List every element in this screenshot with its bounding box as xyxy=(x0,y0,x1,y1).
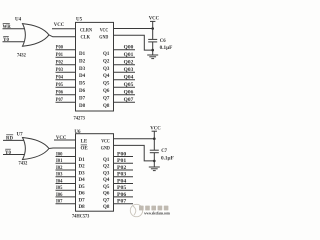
svg-text:I04: I04 xyxy=(56,180,63,185)
net label RD (active low) xyxy=(6,135,13,142)
svg-text:Q1: Q1 xyxy=(103,52,110,57)
svg-text:P00: P00 xyxy=(56,46,64,51)
svg-text:D1: D1 xyxy=(79,52,86,57)
svg-text:Q5: Q5 xyxy=(103,185,110,190)
svg-text:Q07: Q07 xyxy=(124,98,134,103)
svg-text:GND: GND xyxy=(101,147,110,152)
chip U6 74HC573 body xyxy=(76,134,114,212)
power symbol VCC bottom rail xyxy=(152,131,157,139)
svg-text:Q7: Q7 xyxy=(103,198,110,203)
wire VCC pin U5 to rail xyxy=(114,28,153,30)
watermark logo circle xyxy=(130,204,142,216)
svg-text:D8: D8 xyxy=(79,104,86,109)
wire P03 bus xyxy=(114,176,134,178)
svg-text:Q6: Q6 xyxy=(103,89,110,94)
svg-text:D6: D6 xyxy=(79,192,86,197)
svg-text:www.elecfans.com: www.elecfans.com xyxy=(144,211,170,215)
wire P06 xyxy=(56,94,76,96)
svg-text:CLK: CLK xyxy=(81,36,91,41)
svg-text:Q04: Q04 xyxy=(124,76,134,81)
svg-text:Q3: Q3 xyxy=(103,171,110,176)
wire P07 xyxy=(56,101,76,103)
wire GND pin U6 route xyxy=(114,145,155,161)
svg-text:P07: P07 xyxy=(117,200,127,205)
svg-text:Q6: Q6 xyxy=(103,192,110,197)
svg-text:C7: C7 xyxy=(161,149,167,154)
svg-text:P06: P06 xyxy=(56,91,64,96)
svg-text:VCC: VCC xyxy=(150,127,161,132)
wire I04 xyxy=(56,183,76,185)
wire P06 bus xyxy=(114,196,134,198)
svg-text:D3: D3 xyxy=(79,67,86,72)
wire U7 output to OE xyxy=(49,147,76,150)
svg-text:P04: P04 xyxy=(117,180,127,185)
svg-text:VCC: VCC xyxy=(54,23,65,28)
svg-text:P01: P01 xyxy=(117,159,127,164)
wire I07 xyxy=(56,203,76,205)
svg-text:7432: 7432 xyxy=(19,161,28,166)
or-gate U7 body xyxy=(23,138,50,160)
power symbol VCC top rail xyxy=(150,21,155,28)
svg-text:7432: 7432 xyxy=(17,54,26,59)
svg-text:I03: I03 xyxy=(56,173,63,178)
junction node GND/C6 bottom xyxy=(151,49,154,52)
svg-text:P05: P05 xyxy=(117,186,127,191)
svg-text:P00: P00 xyxy=(117,153,127,158)
svg-text:LE: LE xyxy=(81,140,88,145)
svg-text:Q01: Q01 xyxy=(124,53,134,58)
svg-text:D1: D1 xyxy=(79,158,86,163)
wire Q03 xyxy=(114,71,136,73)
net label Y0 (active low) top xyxy=(3,36,9,43)
wire Y0 input to U4 xyxy=(3,41,28,43)
wire P00 bus xyxy=(114,156,134,158)
wire P02 xyxy=(56,64,76,66)
svg-text:Q8: Q8 xyxy=(103,205,110,210)
capacitor C7 xyxy=(150,150,159,153)
svg-text:D2: D2 xyxy=(79,59,86,64)
svg-text:U5: U5 xyxy=(76,17,83,22)
svg-text:Q02: Q02 xyxy=(124,61,134,66)
capacitor C6 xyxy=(148,39,157,42)
svg-text:GND: GND xyxy=(99,36,108,41)
svg-text:I01: I01 xyxy=(56,159,63,164)
svg-text:U7: U7 xyxy=(17,133,24,138)
net label WR (active low) xyxy=(3,23,12,30)
wire VCC pin U6 to rail xyxy=(114,138,155,140)
wire P04 bus xyxy=(114,183,134,185)
svg-text:Q7: Q7 xyxy=(103,97,110,102)
svg-text:Y0: Y0 xyxy=(3,38,9,43)
junction node VCC/C7 top xyxy=(153,137,156,140)
svg-text:C6: C6 xyxy=(160,39,166,44)
wire P04 xyxy=(56,79,76,81)
svg-text:VCC: VCC xyxy=(101,140,110,145)
net label Y0 (active low) bottom xyxy=(5,149,11,156)
svg-text:P06: P06 xyxy=(117,193,127,198)
wire I05 xyxy=(56,189,76,191)
svg-text:VCC: VCC xyxy=(149,17,160,22)
wire I06 xyxy=(56,196,76,198)
svg-text:I06: I06 xyxy=(56,193,63,198)
wire P02 bus xyxy=(114,169,134,171)
wire U4 output to CLK xyxy=(49,35,76,37)
svg-text:RD: RD xyxy=(6,136,13,141)
svg-text:D4: D4 xyxy=(79,178,86,183)
svg-text:P03: P03 xyxy=(117,173,127,178)
pin name OE (active low) xyxy=(81,145,89,152)
svg-text:Q4: Q4 xyxy=(103,178,110,183)
svg-text:74273: 74273 xyxy=(74,117,86,122)
svg-text:0.1µF: 0.1µF xyxy=(161,157,174,162)
wire P05 bus xyxy=(114,189,134,191)
svg-text:D8: D8 xyxy=(79,205,86,210)
svg-text:Q2: Q2 xyxy=(103,59,110,64)
svg-text:I05: I05 xyxy=(56,186,63,191)
svg-text:VCC: VCC xyxy=(56,136,67,141)
svg-text:Q8: Q8 xyxy=(103,104,110,109)
wire C6 bottom plate to ground node xyxy=(152,42,154,55)
svg-text:Q1: Q1 xyxy=(103,158,110,163)
svg-text:Q05: Q05 xyxy=(124,83,134,88)
wire Q05 xyxy=(114,86,136,88)
svg-text:Q00: Q00 xyxy=(124,46,134,51)
svg-text:0.1µF: 0.1µF xyxy=(160,46,173,51)
svg-text:D3: D3 xyxy=(79,171,86,176)
svg-text:D7: D7 xyxy=(79,198,86,203)
chip U5 74273 body xyxy=(76,22,114,111)
svg-text:Q5: Q5 xyxy=(103,82,110,87)
svg-text:Q3: Q3 xyxy=(103,67,110,72)
svg-text:VCC: VCC xyxy=(100,29,109,34)
svg-text:P05: P05 xyxy=(56,83,64,88)
svg-text:P01: P01 xyxy=(56,53,64,58)
wire Q00 xyxy=(114,49,136,51)
wire Q07 xyxy=(114,101,136,103)
svg-text:D4: D4 xyxy=(79,74,86,79)
wire P03 xyxy=(56,71,76,73)
svg-text:WR: WR xyxy=(3,25,12,30)
svg-text:U4: U4 xyxy=(15,17,22,22)
svg-text:P02: P02 xyxy=(56,61,64,66)
wire Q06 xyxy=(114,94,136,96)
junction node VCC/C6 top xyxy=(151,27,154,30)
svg-text:I07: I07 xyxy=(56,200,63,205)
svg-text:Q4: Q4 xyxy=(103,74,110,79)
svg-text:I02: I02 xyxy=(56,166,63,171)
wire C7 bottom plate to ground node xyxy=(153,153,155,167)
wire Q02 xyxy=(114,64,136,66)
junction node GND/C7 bottom xyxy=(153,160,156,163)
wire P01 xyxy=(56,56,76,58)
svg-text:74HC573: 74HC573 xyxy=(72,214,90,219)
svg-text:U6: U6 xyxy=(74,130,81,135)
svg-text:Q06: Q06 xyxy=(124,91,134,96)
svg-text:P07: P07 xyxy=(56,98,64,103)
wire RD input to U7 xyxy=(3,139,27,141)
svg-text:D7: D7 xyxy=(79,97,86,102)
svg-text:I00: I00 xyxy=(56,153,63,158)
wire P00 xyxy=(56,49,76,51)
watermark chinese text blocks xyxy=(139,206,168,211)
wire I01 xyxy=(56,162,76,164)
svg-text:OE: OE xyxy=(81,147,89,152)
wire rail to C6 top plate xyxy=(152,29,154,40)
wire VCC to LE xyxy=(54,139,76,141)
ground symbol top xyxy=(147,55,158,59)
or-gate U4 body xyxy=(23,24,50,47)
wire P07 bus xyxy=(114,203,134,205)
svg-text:Y0: Y0 xyxy=(5,151,11,156)
svg-text:P03: P03 xyxy=(56,68,64,73)
wire P05 xyxy=(56,86,76,88)
wire rail to C7 top plate xyxy=(153,139,155,151)
ground symbol bottom xyxy=(149,167,160,171)
svg-text:D2: D2 xyxy=(79,165,86,170)
wire P01 bus xyxy=(114,162,134,164)
svg-text:D5: D5 xyxy=(79,82,86,87)
svg-text:CLRN: CLRN xyxy=(80,29,92,34)
wire I03 xyxy=(56,176,76,178)
wire GND pin U5 route xyxy=(114,35,153,50)
wire Q04 xyxy=(114,79,136,81)
svg-text:D6: D6 xyxy=(79,89,86,94)
wire I02 xyxy=(56,169,76,171)
svg-text:D5: D5 xyxy=(79,185,86,190)
svg-text:Q03: Q03 xyxy=(124,68,134,73)
wire VCC to CLRN xyxy=(52,28,76,30)
svg-text:P04: P04 xyxy=(56,76,64,81)
svg-text:Q2: Q2 xyxy=(103,165,110,170)
wire Y0 input to U7 xyxy=(3,154,27,156)
svg-text:P02: P02 xyxy=(117,166,127,171)
wire I00 xyxy=(56,156,76,158)
wire Q01 xyxy=(114,56,136,58)
wire WR input to U4 xyxy=(3,28,27,30)
